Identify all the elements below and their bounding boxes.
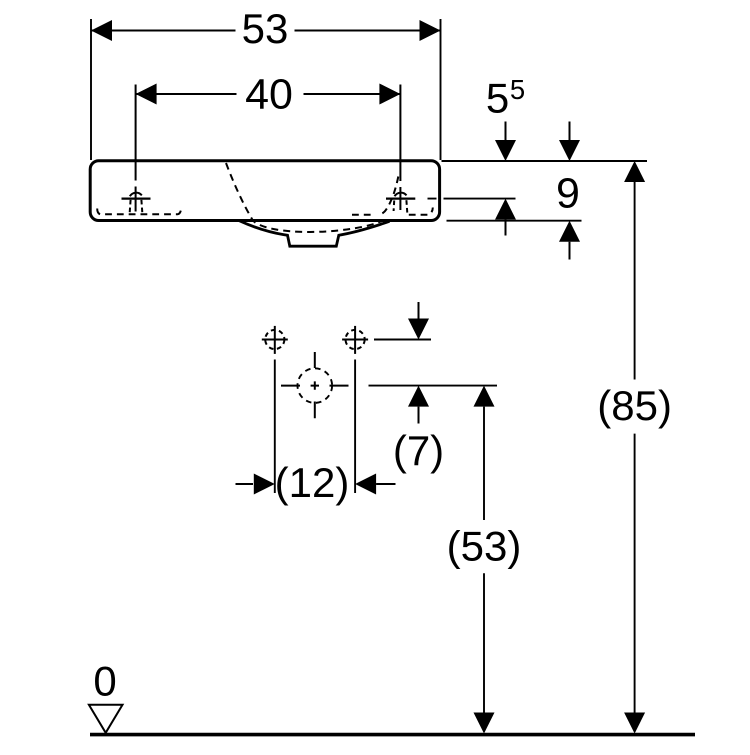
datum triangle	[89, 705, 123, 733]
svg-text:(53): (53)	[447, 523, 522, 570]
bowl back wall dashed diagonal	[378, 177, 398, 215]
drain hole center plus	[311, 381, 319, 389]
dim 12 right arrow	[355, 474, 376, 495]
washbasin outline (front view rounded rect)	[90, 161, 439, 221]
small tap hole right (plan)	[346, 330, 365, 349]
pointer line bottom edge	[447, 220, 582, 222]
svg-text:40: 40	[245, 71, 293, 119]
extension line 12 left	[274, 360, 276, 494]
svg-text:5: 5	[486, 75, 509, 122]
right fixing bracket dashed	[352, 214, 376, 216]
svg-text:53: 53	[242, 5, 289, 52]
left tap hole cross	[122, 198, 151, 200]
pointer line tap level	[428, 198, 516, 200]
dim 9 down arrow	[569, 122, 571, 142]
right tap hole dome arc	[395, 193, 407, 197]
pointer line drain level (plan)	[369, 385, 498, 387]
extension line 40 left (through left tap)	[135, 85, 137, 212]
dim 5.5 up arrow	[495, 199, 516, 220]
svg-text:(7): (7)	[393, 427, 444, 474]
arrow 53 left	[91, 20, 112, 41]
drain hole crosshairs	[281, 385, 349, 387]
inner bowl rim dashed arc	[226, 163, 384, 232]
svg-text:(12): (12)	[275, 459, 350, 506]
svg-text:5: 5	[510, 74, 525, 105]
left fixing bracket dashed	[97, 209, 181, 215]
small tap hole left (plan)	[265, 330, 284, 349]
svg-text:0: 0	[93, 658, 116, 705]
right tap boss dashed legs	[393, 201, 396, 212]
dim 7 down arrow	[418, 302, 420, 320]
extension line 53 right	[440, 19, 442, 160]
extension line 40 right (through right tap)	[399, 85, 401, 211]
dim 7 up arrow	[408, 386, 429, 407]
right tap hole cross	[386, 198, 415, 200]
dim (53) vertical line	[483, 407, 485, 713]
bowl underside solid curve with drain trap	[239, 221, 390, 247]
dim (53) down arrow	[474, 713, 495, 734]
extension line 12 right	[354, 360, 356, 494]
left tap boss dashed legs	[130, 200, 131, 214]
pointer line top surface	[442, 160, 648, 162]
dim (85) up arrow	[624, 161, 645, 182]
dim (85) vertical line	[634, 182, 636, 713]
svg-text:9: 9	[556, 170, 580, 218]
dim 9 up arrow	[559, 221, 580, 242]
dimension line 40	[136, 93, 401, 95]
left tap hole dome arc	[130, 193, 142, 197]
dim (53) up arrow	[474, 386, 495, 407]
dim 5.5 down arrow	[505, 122, 507, 142]
extension line 53 left	[90, 19, 92, 160]
arrow 53 right	[420, 20, 441, 41]
pointer line tap-hole level (plan)	[374, 339, 431, 341]
dim 12 left arrow	[236, 483, 254, 485]
dimension line 53	[91, 30, 441, 32]
svg-text:(85): (85)	[597, 382, 672, 429]
dim (85) down arrow	[624, 713, 645, 734]
floor line	[90, 733, 695, 737]
drain hole (plan) dashed circle	[298, 368, 333, 403]
arrow 40 left	[136, 84, 157, 105]
arrow 40 right	[379, 84, 400, 105]
